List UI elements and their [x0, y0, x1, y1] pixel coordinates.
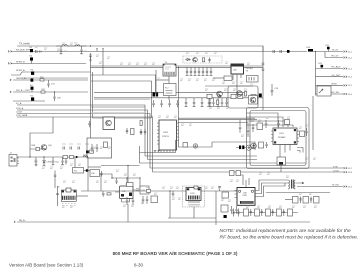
svg-text:J2-2: J2-2: [348, 57, 353, 59]
wire out y76.7: [316, 76, 344, 78]
svg-text:SYNTH: SYNTH: [162, 136, 169, 138]
wire RF down x88: [87, 157, 89, 191]
wire bus b y108: [17, 110, 148, 160]
resistor in enclosure: [104, 142, 108, 148]
svg-text:RF board, so the entire board: RF board, so the entire board must be re…: [220, 235, 359, 241]
filter row1 box1: [293, 197, 299, 204]
wire ground rail y222: [17, 221, 310, 223]
RX IC U101: [273, 128, 297, 145]
wire x216 drop: [215, 191, 217, 225]
capacitor C60 shunt: [35, 157, 38, 166]
filter FL1: [73, 168, 84, 174]
svg-text:LOCK: LOCK: [16, 112, 22, 114]
svg-text:RX_INJ: RX_INJ: [332, 92, 340, 94]
svg-text:TX_5V: TX_5V: [332, 50, 339, 52]
transformer T1: [288, 180, 290, 189]
wire input 4 stub: [11, 72, 22, 75]
wire bus long y168: [150, 167, 343, 169]
resistor R21: [245, 92, 247, 97]
cap top-left: [252, 124, 255, 132]
svg-text:R57: R57: [42, 89, 47, 91]
box top-right with arrow: [317, 86, 331, 96]
svg-text:TX_Inhibit: TX_Inhibit: [19, 43, 30, 46]
wire y78 stub: [213, 77, 224, 79]
node chevron line5: [10, 79, 11, 81]
capacitor shunt x240: [239, 120, 242, 133]
wire input 7 y101: [13, 100, 45, 102]
wire input 4 y72: [22, 71, 91, 73]
svg-text:TX: TX: [246, 71, 249, 73]
wire row2 link: [233, 212, 298, 214]
inductor E5 (black): [31, 97, 34, 100]
transistor Q10: [41, 145, 47, 151]
filter row2 box3: [266, 209, 271, 216]
svg-text:800 MHZ RF BOARD VER A/B SCHEM: 800 MHZ RF BOARD VER A/B SCHEMATIC (PAGE…: [113, 251, 238, 256]
bias components under Q23: [208, 98, 210, 106]
series box on rf line 2: [70, 156, 74, 159]
small box row above y97.8 rail b2: [231, 94, 236, 98]
resistor left of synth: [140, 121, 142, 126]
node chevron bus y168: [344, 167, 347, 169]
inductor E11 (black): [327, 47, 330, 50]
current source circle: [251, 143, 257, 149]
transistor Q22 (dark): [249, 96, 258, 105]
svg-text:J2-7: J2-7: [348, 168, 353, 170]
filter row1 cap1: [299, 197, 301, 204]
junction x178: [178, 67, 179, 68]
wire bus a y105: [17, 105, 145, 156]
capacitor C65: [115, 178, 118, 184]
wire x315.5 vertical: [315, 52, 317, 96]
wire out y94: [316, 93, 344, 95]
capacitor C70: [102, 191, 105, 197]
shield box RX inner: [250, 111, 306, 166]
resistor R60: [107, 193, 111, 195]
svg-text:C58: C58: [57, 98, 62, 100]
junction x315.5: [315, 51, 316, 52]
svg-text:E5: E5: [31, 96, 34, 98]
capacitor shunt x248: [247, 123, 250, 136]
filter row2 box4: [277, 209, 282, 216]
svg-text:C61: C61: [55, 162, 60, 164]
resistor R20: [203, 58, 205, 62]
box U12: [140, 186, 149, 194]
node dot on lineA x90.5: [90, 45, 91, 46]
svg-text:Version A/B Board (see Section: Version A/B Board (see Section 1.13): [9, 262, 84, 267]
cap in enclosure 1: [91, 144, 93, 152]
svg-text:J2-3: J2-3: [348, 68, 353, 70]
caps left of U40: [230, 206, 237, 214]
svg-text:SPKR_A: SPKR_A: [16, 69, 25, 72]
wire x263 vertical: [262, 46, 264, 110]
IC pins right: [297, 131, 299, 142]
box below IC: [277, 157, 286, 165]
connector J1 pin stubs: [17, 158, 19, 164]
wire y165.5: [101, 165, 140, 167]
wire R58 stub: [30, 148, 42, 150]
wire y118: [93, 117, 152, 119]
caps above IC: [277, 120, 280, 128]
svg-text:PWR: PWR: [243, 195, 248, 197]
box left-bottom: [259, 142, 264, 148]
wire main bottom rail y191: [81, 190, 243, 192]
diode on rf line (black): [76, 156, 79, 158]
svg-text:SQ_DET: SQ_DET: [332, 75, 341, 77]
junction dot x128: [127, 165, 128, 166]
inductor E2 (black): [30, 57, 33, 60]
inductor E4 (black): [31, 87, 34, 90]
capacitor C61 shunt: [52, 157, 55, 165]
filter row2 cap a: [232, 209, 234, 217]
svg-text:NOTE: Individual replacement p: NOTE: Individual replacement parts are n…: [220, 228, 351, 234]
svg-text:R58: R58: [32, 145, 37, 147]
U201 pins bottom: [161, 150, 173, 153]
LC filter on line1: inductor L1: [62, 45, 67, 46]
wire d3 drop: [139, 178, 141, 190]
wire rail y92.3: [94, 91, 246, 93]
LC filter: inductor L2: [75, 45, 80, 46]
IC U11: [120, 186, 134, 199]
inductor E12 (black): [321, 65, 324, 68]
capacitor C81: [218, 186, 221, 191]
caps under U12: [142, 196, 149, 204]
junction dot rf2: [43, 156, 44, 157]
component marks on rail x147-152: [147, 189, 151, 192]
shield box RX outer: [247, 108, 310, 169]
filter row2 cap b: [237, 209, 239, 217]
wire down to FL1: [74, 157, 76, 168]
node chevron out4: [344, 76, 347, 78]
capacitor left of Q30: [88, 121, 91, 127]
capacitor row under y97.8 rail c4: [209, 98, 212, 107]
transistor Q20: [193, 57, 198, 62]
capacitor row under y97.8 rail c5: [217, 98, 220, 107]
wire vertical x92.5: [92, 72, 94, 118]
resistor R58: [36, 147, 39, 150]
capacitor C62 C63 pair: [61, 157, 64, 165]
blob on line B right: [287, 50, 290, 53]
mixer box U10: [90, 170, 100, 177]
ground sym top stub: [89, 60, 92, 61]
junction dot d2: [126, 177, 127, 178]
resistor R57: [41, 91, 45, 93]
svg-text:J2-9: J2-9: [348, 186, 353, 188]
wire y86: [205, 85, 253, 87]
wire bus long y159.5: [148, 159, 258, 161]
wire x313 vertical: [312, 96, 314, 150]
wire mixer down x101: [100, 173, 102, 191]
svg-text:LOCK: LOCK: [333, 170, 339, 172]
wire bus long y156: [145, 155, 257, 157]
box lower right: [221, 205, 228, 212]
svg-text:E3: E3: [31, 70, 34, 72]
svg-text:E1: E1: [30, 47, 33, 49]
caps under synth: [154, 150, 160, 153]
junction dot line6: [54, 91, 55, 92]
transformer feed line 2: [255, 183, 288, 194]
wire mixer out y174: [100, 174, 113, 178]
svg-text:RSSI: RSSI: [332, 84, 337, 86]
node chevron out2: [344, 57, 347, 59]
capacitor at x156 bottom: [155, 93, 158, 97]
capacitor row under y97.8 rail c1: [185, 98, 188, 107]
U40 left pins: [235, 191, 238, 198]
junction dot rf3: [74, 156, 75, 157]
wire x103 drop from lineB: [102, 52, 104, 76]
transistor Q23: [217, 91, 223, 97]
grey band y113: [91, 112, 145, 113]
capacitor C57 shunt: [47, 80, 50, 88]
pin number row under U5: [62, 204, 76, 206]
wire input 6 y92: [13, 91, 88, 93]
svg-text:E4: E4: [30, 85, 33, 87]
nested wire loop 4: [246, 125, 293, 127]
wire y175: [240, 175, 243, 185]
resistor R56: [40, 79, 44, 81]
wire FL1 out: [84, 170, 91, 172]
wire out y51.5 cont: [313, 51, 343, 53]
cap right of IC: [305, 128, 307, 136]
wire IC to row1: [266, 192, 330, 194]
wire line B y51.5: [11, 51, 307, 53]
ferrite E7 (black): [86, 169, 88, 171]
svg-text:SYN: SYN: [333, 166, 338, 168]
cap above rail: [218, 94, 221, 98]
wire y163: [140, 162, 307, 164]
VCO module Y1: [163, 64, 176, 76]
audio IC U5: [61, 190, 76, 201]
wire stub y80: [156, 79, 169, 81]
IC pins left: [271, 131, 273, 142]
svg-text:J2-4: J2-4: [348, 77, 353, 79]
connector J1: [9, 155, 17, 167]
wire cap drop x55: [54, 171, 56, 189]
nested wire loop 2: [246, 117, 283, 127]
wire y147 segment: [178, 142, 212, 147]
svg-text:SW_B+_CNTL: SW_B+_CNTL: [16, 90, 31, 92]
nested wire loop 3: [246, 121, 288, 127]
capacitor C67 on drop: [54, 175, 57, 176]
svg-text:SPKR_B: SPKR_B: [16, 62, 25, 64]
capacitor marks after E1: [36, 50, 42, 53]
capacitor C90: [271, 84, 274, 96]
svg-text:PA_B+: PA_B+: [19, 219, 26, 222]
svg-text:C57: C57: [51, 84, 56, 86]
transistor Q21: [237, 91, 243, 97]
small box row above y97.8 rail b4: [251, 94, 256, 98]
svg-text:J2-5: J2-5: [348, 85, 353, 87]
svg-text:J2-8: J2-8: [348, 172, 353, 174]
wire input 5 y78.5: [13, 79, 88, 81]
inductor E3 (black): [31, 72, 34, 75]
wire y178 feed: [248, 178, 250, 185]
filter row2 cap4: [283, 209, 285, 216]
synth shield bottom: [140, 140, 176, 153]
nested wire loop 1: [246, 113, 278, 127]
node chevron bus y172: [344, 171, 347, 173]
U201 pins right: [177, 123, 179, 141]
box after x178 drop: [183, 143, 188, 148]
wire antenna vertical x90.5: [90, 53, 92, 138]
cap mid-left: [265, 120, 268, 128]
ferrite (black) near x260: [259, 94, 262, 98]
transformer feed line 3: [255, 183, 285, 197]
rounded box buffer amp: [228, 86, 258, 108]
wire out y57.5: [325, 57, 343, 59]
junction x170: [169, 190, 170, 191]
wire synth top x169: [168, 96, 170, 100]
U5 out wire right: [76, 195, 88, 197]
wire main bus lower: [91, 66, 264, 68]
U201 pins left: [157, 123, 159, 144]
filter row2 cap2: [261, 209, 263, 216]
IC U201: [159, 120, 177, 150]
svg-text:TX_INJ: TX_INJ: [332, 185, 339, 187]
ferrite pair (black) on y92.3 rail: [153, 93, 156, 97]
node chevron out3: [344, 68, 347, 70]
caps row above synth: [152, 100, 155, 107]
comps on line B right: [273, 50, 282, 53]
wire bus long y172: [153, 171, 344, 173]
filter row2 box1: [244, 209, 249, 216]
small box below-left U20: [224, 76, 232, 81]
wire collector route up: [30, 117, 53, 140]
wire bus d y114: [17, 117, 153, 172]
junction dot rf1: [29, 156, 30, 157]
node chevron out6: [344, 93, 347, 95]
svg-text:UNSW_B+: UNSW_B+: [16, 78, 27, 80]
filter row2 cap3: [272, 209, 274, 216]
svg-text:J2-6: J2-6: [348, 94, 353, 96]
caps under U11: [126, 197, 135, 205]
wire RF main y157: [17, 156, 88, 158]
svg-text:SYN_DATA: SYN_DATA: [16, 114, 28, 117]
capacitor C20: [208, 58, 210, 63]
IC U30: [186, 188, 201, 201]
cap pair x141,x145: [140, 129, 146, 135]
grey band y99: [94, 99, 150, 100]
box top-left: [257, 123, 263, 130]
detector circle: [246, 145, 251, 150]
U40 top pin: [245, 180, 247, 188]
node chevron out5: [344, 85, 347, 87]
wire U11 drop to rail: [127, 204, 129, 222]
inductor L10: [83, 156, 88, 157]
component marks near x97-104 on line B: [96, 49, 104, 52]
diode CR20: [185, 58, 191, 60]
component box right of U30: [222, 192, 229, 198]
node chevron line6: [10, 91, 11, 93]
comp marks row y148: [63, 147, 80, 150]
comp labels row y144: [62, 143, 89, 145]
cap + resistor right of Q30: [126, 128, 128, 134]
wire x139.5 riser: [139, 146, 141, 163]
wire y107: [91, 106, 145, 108]
box TX power control: [103, 117, 115, 130]
ferrite (black) bottom: [224, 215, 227, 218]
svg-text:C90: C90: [275, 88, 280, 90]
wire detector link: [236, 147, 254, 149]
capacitor C80: [172, 191, 175, 197]
junction dot d1: [111, 177, 112, 178]
box right of IC: [300, 131, 305, 137]
inductor E3b (black) on line5: [31, 79, 34, 82]
filter row1 cap2: [310, 197, 312, 204]
wire out y85.4: [316, 84, 344, 86]
svg-text:5V_A: 5V_A: [16, 102, 22, 105]
cap in enclosure 2: [96, 144, 98, 152]
wire rail y75: [91, 75, 156, 92]
svg-text:E2: E2: [30, 56, 33, 58]
PA IC U40: [237, 188, 255, 206]
capacitor C58 shunt: [53, 92, 56, 101]
circle comp y146: [193, 144, 197, 148]
capacitor C64: [100, 171, 103, 177]
LC filter labels: [62, 43, 87, 51]
wire branch down x325: [324, 52, 326, 58]
svg-text:RX AMP: RX AMP: [278, 136, 286, 139]
wire pin collector y204: [193, 207, 195, 218]
buffer box: [164, 84, 177, 96]
label clutter (tiny value/designator smudges): [34, 43, 317, 208]
dashed box TX key: [183, 56, 222, 63]
LC filter junction wire: [56, 45, 87, 47]
wire main bus y66.5 (double): [91, 65, 264, 67]
node chevron line3: [8, 63, 12, 65]
shunt capacitor row x187-212: [186, 67, 189, 75]
dashed box around U30: [183, 186, 205, 207]
capacitor row under y97.8 rail c3: [201, 98, 204, 107]
box right with caps: [247, 76, 259, 83]
wire T1 out arrow: [296, 182, 304, 184]
junction dot d3: [139, 177, 140, 178]
wire x170 drop: [169, 191, 171, 218]
svg-text:U201: U201: [163, 132, 169, 134]
svg-text:Q10: Q10: [48, 145, 53, 147]
wire below-IC drops: [280, 145, 290, 158]
svg-text:E12: E12: [319, 63, 323, 65]
wire box drop: [280, 165, 282, 172]
svg-text:CR40: CR40: [47, 162, 53, 164]
wire VCO bottom drop: [168, 76, 170, 88]
LC filter: shunt cap 1: [60, 46, 63, 54]
cap marks on x263: [262, 63, 265, 70]
transistor Q30: [106, 120, 112, 126]
ferrite E10 (black): [308, 49, 313, 52]
filter row1 box3: [314, 197, 320, 204]
small box row above y97.8 rail b1: [207, 94, 212, 98]
svg-text:SYN_A: SYN_A: [16, 107, 24, 110]
node chevron TX_INJ: [344, 186, 347, 188]
wire double bus y118.2: [178, 117, 255, 119]
node chevron line B: [8, 51, 12, 53]
svg-text:J2-1: J2-1: [348, 51, 353, 53]
svg-text:RX_5V: RX_5V: [332, 56, 339, 58]
wire y142 segment: [212, 142, 255, 150]
inductor E1 (black): [30, 49, 33, 52]
filter row2 box5: [288, 209, 293, 216]
box R array: [151, 196, 158, 203]
small box pair top: [230, 171, 235, 176]
wire TX_Inhibit y46: [17, 46, 263, 52]
series box on rf line 1: [63, 156, 68, 159]
gnd rail under Q23 cluster: [207, 106, 228, 108]
component cluster under d2: [126, 178, 129, 187]
svg-text:8-30: 8-30: [134, 263, 144, 268]
wire collector drop: [29, 140, 31, 157]
node chevron gnd rail: [14, 221, 15, 223]
wire rail y97.8: [94, 97, 263, 99]
